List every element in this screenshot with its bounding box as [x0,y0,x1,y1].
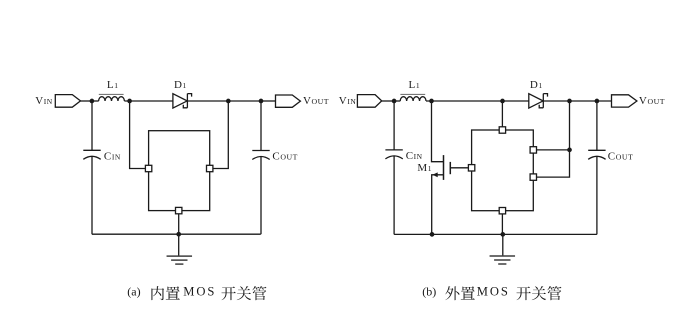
svg-text:OUT: OUT [280,153,298,162]
svg-text:D: D [174,79,182,91]
svg-text:IN: IN [44,97,53,106]
wire U1 bottom pin to ground rail (a) [178,214,180,234]
svg-text:OUT: OUT [647,97,665,106]
diode D1 (b) (Schottky) [529,94,548,109]
caption (a) char 关 [237,286,251,300]
svg-text:MOS: MOS [183,284,216,298]
wire feedback node down and to U1 lower right pin (b) [537,101,570,177]
IC box U1 (a) [149,131,210,211]
svg-text:C: C [104,150,111,162]
wire CIN (b) bottom lead [393,156,395,235]
wire feedback node down to U1 right pin (a) [213,101,228,169]
wire input node to L1 (b) [394,100,400,102]
caption (b) char 置 [461,286,475,299]
M1 source arrow (b) [432,172,437,177]
junction dot U1 supply node (b) [500,99,505,104]
svg-text:C: C [406,150,413,162]
junction dot node SW / M1 drain (b) [429,99,434,104]
svg-text:1: 1 [428,164,432,173]
U1 bottom pin GND (a) [176,207,182,213]
wire CIN (b) top lead [393,101,395,150]
inductor L1 (b) [400,94,426,101]
wire M1 source to ground rail (b) [432,175,444,235]
junction dot ground node (a) [176,232,181,237]
wire COUT (b) bottom lead [596,156,598,234]
junction dot COUT node (a) [259,99,264,104]
ground rail wire (a) [92,233,261,235]
svg-text:C: C [272,151,279,163]
svg-text:1: 1 [114,81,118,90]
junction dot feedback node (a) [226,99,231,104]
wire CIN (a) bottom lead [91,156,93,234]
svg-text:MOS: MOS [477,284,510,298]
ground symbol (a) [167,256,193,264]
junction dot M1 source ground (b) [430,232,435,237]
svg-text:IN: IN [414,152,423,161]
svg-text:(b): (b) [422,284,436,298]
caption (a) char 内 [151,286,164,300]
wire feedback node to COUT node (a) [228,100,261,102]
capacitor COUT (b) [588,150,605,159]
svg-text:(a): (a) [127,284,140,298]
U1 lower right pin (b) [530,174,536,180]
wire COUT node to VOUT port (a) [261,100,276,102]
caption (b) char 开 [516,287,530,301]
wire D1 cathode to VOUT (b) [543,100,611,102]
U1 right pin (a) [207,165,213,171]
wire VIN port to input node (b) [382,100,394,102]
wire D1 cathode to feedback node (a) [188,100,229,102]
junction dot node SW (a) [127,99,132,104]
svg-text:L: L [107,79,114,91]
svg-text:1: 1 [183,81,187,90]
capacitor CIN (b) [385,150,402,159]
port VOUT (a) [276,95,301,107]
U1 left pin (a) [145,165,151,171]
port VIN (b) [357,95,381,108]
ground rail wire (b) [394,233,597,235]
caption (b) char 外 [445,286,459,300]
svg-text:M: M [417,162,427,174]
svg-text:1: 1 [538,81,542,90]
diode D1 (a) (Schottky) [173,94,192,109]
capacitor COUT (a) [252,151,269,160]
svg-text:IN: IN [347,97,356,106]
wire ground stem (a) [178,234,180,256]
wire L1 to D1 anode, node SW (b) [426,100,529,102]
port VIN (a) [55,95,80,108]
node VIN junction (a) [90,99,95,104]
svg-text:V: V [35,95,43,107]
M1 channel bar (b) [443,155,445,180]
wire U1 upper right pin to feedback (b) [537,149,570,151]
svg-text:OUT: OUT [616,152,634,161]
svg-text:L: L [409,79,416,91]
wire L1 to D1 anode, node SW (a) [124,100,172,102]
caption (a) char 置 [166,286,180,299]
capacitor CIN (a) [83,150,100,159]
svg-text:1: 1 [416,81,420,90]
inductor L1 (a) [99,94,125,101]
caption (a) char 管 [252,286,266,300]
wire M1 drain from SW node (b) [432,101,444,162]
transistor M1 NMOS (b) [432,101,469,234]
caption (b) char 关 [532,286,546,300]
U1 upper right pin (b) [530,147,536,153]
svg-text:OUT: OUT [312,97,330,106]
port VOUT (b) [612,95,637,107]
junction dot ground node (b) [500,232,505,237]
IC box U1 (b) [472,130,534,211]
node VIN junction (b) [392,99,397,104]
wire COUT (a) top lead [260,101,262,151]
U1 left pin gate drive (b) [468,165,474,171]
U1 bottom pin GND (b) [499,208,505,214]
wire COUT (a) bottom lead [260,157,262,235]
svg-text:V: V [339,95,347,107]
svg-text:V: V [303,95,311,107]
svg-text:C: C [608,150,615,162]
svg-text:D: D [530,79,538,91]
junction dot feedback tap (b) [567,148,572,153]
wire ground stem (b) [502,234,504,256]
caption (a) char 开 [221,287,235,301]
caption (b) char 管 [547,286,561,300]
wire U1 bottom pin to ground rail (b) [501,214,503,235]
M1 gate bar (b) [449,162,451,174]
wire SW node down to U1 left pin (a) [130,101,146,169]
wire M1 gate to U1 left pin (b) [450,167,468,169]
U1 top pin (b) [499,127,505,133]
wire CIN (a) top lead [91,101,93,150]
wire COUT (b) top lead [596,101,598,150]
wire input node to L1 (a) [92,100,99,102]
svg-text:V: V [639,95,647,107]
ground symbol (b) [490,256,516,264]
svg-text:IN: IN [112,152,121,161]
junction dot feedback node (b) [567,99,572,104]
junction dot COUT node (b) [595,99,600,104]
wire VIN port to input node (a) [81,100,93,102]
wire supply node down to U1 top pin (b) [501,101,503,127]
